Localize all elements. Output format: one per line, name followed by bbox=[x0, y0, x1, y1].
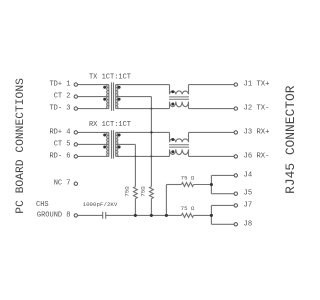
svg-text:J2 TX-: J2 TX- bbox=[244, 105, 270, 113]
svg-text:NC 7: NC 7 bbox=[54, 180, 71, 188]
svg-text:TD+ 1: TD+ 1 bbox=[49, 81, 70, 89]
svg-text:TX 1CT:1CT: TX 1CT:1CT bbox=[89, 74, 131, 82]
svg-text:J5: J5 bbox=[244, 190, 253, 198]
svg-text:RD- 6: RD- 6 bbox=[49, 152, 70, 160]
svg-text:J8: J8 bbox=[244, 220, 253, 228]
svg-text:CT 2: CT 2 bbox=[54, 93, 71, 101]
svg-text:J3 RX+: J3 RX+ bbox=[244, 128, 270, 136]
svg-text:75Ω: 75Ω bbox=[140, 186, 147, 197]
svg-text:PC BOARD CONNECTIONS: PC BOARD CONNECTIONS bbox=[15, 78, 27, 214]
svg-text:GROUND 8: GROUND 8 bbox=[37, 211, 71, 219]
svg-text:RD+ 4: RD+ 4 bbox=[49, 128, 70, 136]
svg-text:75 Ω: 75 Ω bbox=[181, 174, 195, 181]
svg-text:TD- 3: TD- 3 bbox=[49, 105, 70, 113]
svg-text:J1 TX+: J1 TX+ bbox=[244, 81, 270, 89]
svg-text:J4: J4 bbox=[244, 171, 253, 179]
svg-text:J6 RX-: J6 RX- bbox=[244, 152, 270, 160]
svg-text:75Ω: 75Ω bbox=[124, 186, 131, 197]
svg-text:CT 5: CT 5 bbox=[54, 140, 71, 148]
svg-text:75 Ω: 75 Ω bbox=[181, 205, 195, 212]
svg-text:CHS: CHS bbox=[36, 201, 49, 209]
svg-text:RX 1CT:1CT: RX 1CT:1CT bbox=[89, 121, 131, 129]
svg-text:J7: J7 bbox=[244, 201, 253, 209]
svg-text:RJ45 CONNECTOR: RJ45 CONNECTOR bbox=[283, 85, 298, 194]
svg-text:1000pF/2KV: 1000pF/2KV bbox=[83, 201, 118, 208]
